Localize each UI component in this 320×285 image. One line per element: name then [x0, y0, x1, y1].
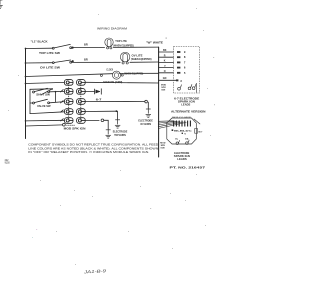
- svg-text:IN "OFF" OR "RELAXED" POSITION: IN "OFF" OR "RELAXED" POSITION. ▭ INDICA…: [28, 150, 149, 154]
- svg-text:R: R: [164, 54, 166, 57]
- svg-text:6: 6: [184, 66, 186, 70]
- svg-text:W-7: W-7: [198, 131, 203, 133]
- svg-text:K: K: [164, 60, 166, 63]
- svg-text:WIRING DIAGRAM: WIRING DIAGRAM: [97, 27, 127, 31]
- svg-text:MOD SPK IGN: MOD SPK IGN: [64, 127, 86, 131]
- svg-text:LEADS: LEADS: [181, 102, 190, 106]
- svg-text:CLOCK: CLOCK: [106, 67, 113, 71]
- svg-text:LEADS: LEADS: [177, 157, 187, 161]
- svg-text:GN: GN: [163, 77, 167, 80]
- svg-text:BK R Y O GN W: BK R Y O GN W: [172, 117, 191, 119]
- svg-text:SIGN ON (GRN): SIGN ON (GRN): [103, 80, 122, 84]
- svg-text:OL: OL: [175, 139, 179, 141]
- svg-text:ALTERNATE VERSION: ALTERNATE VERSION: [171, 110, 206, 114]
- svg-text:"W" WHITE: "W" WHITE: [146, 40, 163, 44]
- svg-text:TOP LITE: TOP LITE: [115, 39, 127, 43]
- svg-text:TOP LITE SW: TOP LITE SW: [39, 51, 61, 55]
- svg-text:BK: BK: [163, 49, 167, 52]
- svg-text:TOP BURN: TOP BURN: [114, 133, 126, 137]
- svg-text:5: 5: [184, 71, 186, 75]
- svg-text:IGN: IGN: [161, 90, 165, 92]
- svg-text:JA1-B-9: JA1-B-9: [82, 268, 107, 274]
- svg-text:(WHEN EQUIPPED): (WHEN EQUIPPED): [113, 43, 134, 47]
- svg-text:BLBLDC: BLBLDC: [174, 131, 192, 133]
- svg-text:"L1" BLACK: "L1" BLACK: [31, 40, 48, 44]
- svg-text:(WHEN EQUIPPED): (WHEN EQUIPPED): [124, 71, 143, 75]
- svg-text:PT. NO. 216457: PT. NO. 216457: [170, 166, 206, 170]
- svg-text:OV LITE SW: OV LITE SW: [40, 65, 61, 69]
- svg-text:BR: BR: [84, 58, 88, 62]
- svg-text:3: 3: [180, 79, 182, 83]
- svg-text:SHUT SW: SHUT SW: [36, 93, 50, 97]
- svg-text:O: O: [164, 70, 166, 73]
- svg-text:OV BURN: OV BURN: [140, 122, 151, 126]
- svg-text:VALVE SW: VALVE SW: [37, 104, 51, 108]
- svg-text:IGN: IGN: [161, 148, 165, 150]
- svg-text:8: 8: [184, 55, 186, 59]
- svg-text:(WHEN EQUIPPED): (WHEN EQUIPPED): [131, 57, 152, 61]
- svg-text:6-7: 6-7: [96, 98, 102, 102]
- svg-text:9: 9: [184, 50, 186, 54]
- svg-text:M: M: [184, 133, 186, 135]
- svg-text:7: 7: [184, 60, 186, 64]
- svg-text:DA: DA: [185, 138, 189, 141]
- svg-text:BR: BR: [84, 43, 88, 47]
- svg-text:9150: 9150: [5, 163, 11, 165]
